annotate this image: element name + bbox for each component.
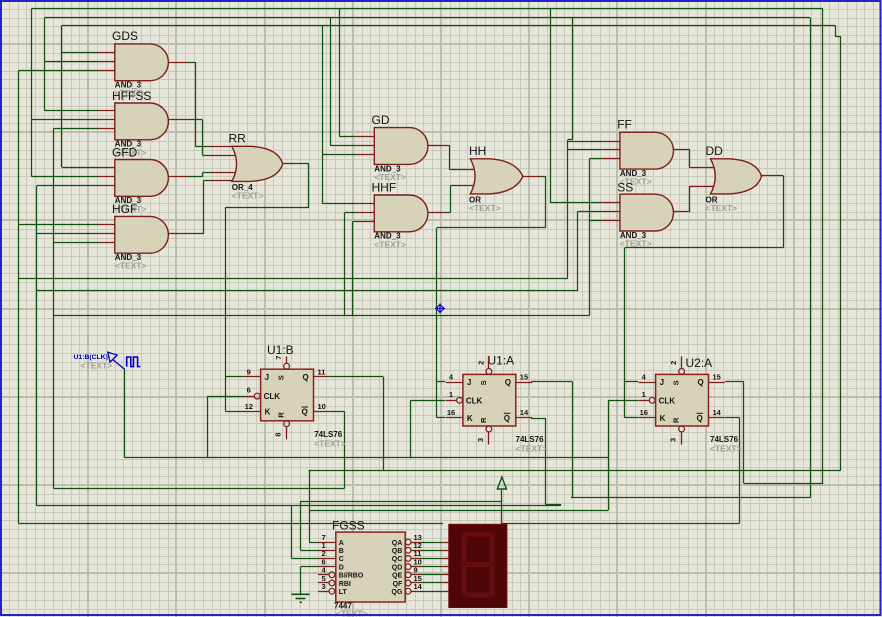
pin bubble U1:A CLK xyxy=(457,397,463,403)
pin stub display segment a xyxy=(443,542,449,544)
svg-text:QG: QG xyxy=(391,589,402,596)
wire 7447 QD wire xyxy=(422,566,443,568)
wire U1:A Qbar jog v xyxy=(560,504,562,506)
pin stub SS input 3 xyxy=(602,220,620,222)
pin stub U1:A Q xyxy=(516,382,532,384)
wire U2:A Qbar cross horizontal xyxy=(18,278,568,280)
pin stub U1:A J xyxy=(446,382,463,384)
wire U1:A J wire xyxy=(437,381,445,383)
pin stub HHF output xyxy=(427,212,443,214)
pin stub U1:A R (bottom) xyxy=(488,432,490,445)
pin stub U2:A Q-bar xyxy=(709,417,725,419)
pin stub HGF output xyxy=(168,233,187,235)
pin stub FGSS QG xyxy=(411,591,422,593)
svg-text:S: S xyxy=(277,375,286,380)
wire GD input 3 wire xyxy=(322,154,356,156)
wire net2-FF jog xyxy=(568,139,573,141)
wire U1:B Qbar wire xyxy=(330,411,345,413)
wire FF output wire xyxy=(683,149,690,151)
wire HFFSS-RR vertical xyxy=(202,120,204,155)
pin stub GDS input 3 xyxy=(97,70,115,72)
wire U1:A K wire xyxy=(437,417,445,419)
wire U1:B Q drop xyxy=(383,377,385,471)
wire net2-GD drop xyxy=(330,18,332,145)
svg-text:DD: DD xyxy=(706,144,724,158)
svg-text:Q: Q xyxy=(505,378,511,387)
pin stub U1:A K xyxy=(446,417,463,419)
pin bubble U2:A R xyxy=(679,426,685,432)
wire RR input 4 wire xyxy=(203,180,211,182)
wire GFD input 1 xyxy=(62,167,98,169)
wire U1:A JK vertical xyxy=(436,228,438,418)
wire net1-SS drop xyxy=(550,8,552,202)
wire U1:A Qbar wire xyxy=(531,418,545,420)
wire GD-HH vertical xyxy=(449,145,451,170)
svg-text:<TEXT>: <TEXT> xyxy=(710,444,742,454)
pin stub FGSS D xyxy=(318,566,336,568)
svg-text:7: 7 xyxy=(274,356,283,360)
pin bubble U2:A CLK xyxy=(649,397,655,403)
wire HGF input 1 xyxy=(18,224,97,226)
wire HHF input 3 riser xyxy=(352,221,354,315)
pin stub GFD input 1 xyxy=(97,167,115,169)
pin stub SS output xyxy=(673,211,690,213)
wire FF input 1 wire xyxy=(568,141,602,143)
wire net3 right riser xyxy=(840,36,842,470)
pin stub U2:A Q xyxy=(709,382,725,384)
wire net1-GD drop xyxy=(339,8,341,136)
pin stub display segment c xyxy=(443,558,449,560)
wire U2:A K wire xyxy=(625,417,639,419)
svg-text:3: 3 xyxy=(669,438,678,442)
wire U1:A Qbar cross horizontal xyxy=(37,290,578,292)
pin bubble FGSS QA xyxy=(405,539,411,545)
pin stub HH input 1 xyxy=(465,169,483,171)
wire HFFSS input 2 xyxy=(32,119,98,121)
svg-text:16: 16 xyxy=(447,408,455,417)
pin stub FGSS QD xyxy=(411,566,422,568)
svg-text:14: 14 xyxy=(520,408,529,417)
pin stub HFFSS input 2 xyxy=(97,119,115,121)
wire net1 left drop xyxy=(31,8,33,176)
wire HGF-RR vertical xyxy=(203,181,205,234)
AND gate GD xyxy=(374,128,428,165)
pin bubble FGSS BI/RBO xyxy=(329,572,335,578)
wire mid bus horizontal xyxy=(309,510,608,512)
svg-text:2: 2 xyxy=(669,361,678,365)
wire U1:A Qbar jog xyxy=(545,504,560,506)
wire FF input 2 wire xyxy=(568,149,602,151)
svg-text:<TEXT>: <TEXT> xyxy=(115,261,147,271)
wire 7447 QE wire xyxy=(422,574,443,576)
svg-text:C: C xyxy=(339,556,344,563)
svg-text:11: 11 xyxy=(318,367,326,376)
pin stub display top pin xyxy=(501,515,503,524)
AND gate GDS xyxy=(115,44,169,81)
wire 7447 QC wire xyxy=(422,558,443,560)
pin stub GFD output xyxy=(168,176,187,178)
pin stub RR output xyxy=(282,163,294,165)
svg-text:14: 14 xyxy=(713,408,722,417)
svg-text:16: 16 xyxy=(640,408,648,417)
pin stub HHF input 3 xyxy=(357,221,375,223)
pin stub RR input 3 xyxy=(211,172,239,174)
wire GFD output wire xyxy=(186,176,202,178)
wire clock source drop xyxy=(124,370,126,458)
svg-text:QD: QD xyxy=(392,564,403,571)
wire U2:A Q drop xyxy=(743,382,745,484)
svg-text:BI/RBO: BI/RBO xyxy=(339,573,364,580)
svg-text:14: 14 xyxy=(414,582,423,591)
pin stub display segment d xyxy=(443,566,449,568)
svg-text:15: 15 xyxy=(520,372,528,381)
wire GDS-RR vertical xyxy=(195,62,197,147)
pin stub FF input 2 xyxy=(602,149,620,151)
pin stub DD input 2 xyxy=(690,186,722,188)
pin stub HFFSS input 3 xyxy=(97,128,115,130)
wire net1 bottom horizontal xyxy=(744,483,823,485)
wire net3 left drop xyxy=(61,25,63,167)
svg-text:J: J xyxy=(660,378,664,387)
wire SS input 1 wire xyxy=(550,202,602,204)
wire HFFSS input 1 xyxy=(45,110,98,112)
svg-text:Q: Q xyxy=(698,378,704,387)
7-segment display ghost digit xyxy=(462,532,495,598)
AND gate HFFSS xyxy=(115,103,169,140)
pin stub HFFSS input 1 xyxy=(97,110,115,112)
wire U1:B Qbar drop xyxy=(344,412,346,489)
pin bubble U1:A R xyxy=(486,426,492,432)
pin stub U2:A CLK xyxy=(639,400,650,402)
OR gate RR xyxy=(232,146,283,181)
wire U1:B Qbar bottom horizontal xyxy=(53,488,344,490)
wire GDS input 3 xyxy=(18,70,97,72)
svg-text:U1:A: U1:A xyxy=(488,354,515,368)
pin bubble U1:B S xyxy=(284,363,290,369)
pin stub FF input 1 xyxy=(602,141,620,143)
wire 7447 D wire xyxy=(301,566,318,568)
svg-text:<TEXT>: <TEXT> xyxy=(706,203,738,213)
pin stub display segment b xyxy=(443,550,449,552)
wire HHF-HH vertical xyxy=(450,186,452,213)
pin stub DD output xyxy=(761,175,770,177)
svg-text:2: 2 xyxy=(476,361,485,365)
svg-text:S: S xyxy=(672,380,681,385)
svg-text:<TEXT>: <TEXT> xyxy=(232,191,264,201)
svg-text:QB: QB xyxy=(392,548,403,555)
wire net3 jog vertical xyxy=(835,25,837,36)
wire 7447 B horizontal xyxy=(300,501,502,503)
wire 7447 B riser xyxy=(300,501,302,550)
wire net3 bottom horizontal xyxy=(309,470,841,472)
svg-text:HH: HH xyxy=(469,144,486,158)
wire U1:B Q wire xyxy=(330,376,384,378)
pin stub FGSS QA xyxy=(411,542,422,544)
wire HFFSS output wire xyxy=(186,119,202,121)
wire 7447 A wire xyxy=(309,542,318,544)
wire 7447 QF wire xyxy=(422,582,443,584)
pin stub HGF input 1 xyxy=(97,224,115,226)
svg-text:6: 6 xyxy=(247,386,251,395)
pin stub RR input 4 xyxy=(211,180,239,182)
wire RR input 1 wire xyxy=(196,146,212,148)
wire HH-U1A horizontal xyxy=(437,227,546,229)
svg-text:D: D xyxy=(339,564,344,571)
wire U2:A Qbar wire xyxy=(725,417,740,419)
pin stub FF output xyxy=(673,149,683,151)
wire GFD input 3 xyxy=(37,185,98,187)
pin stub U2:A K xyxy=(639,417,656,419)
clock source U1:B(CLK) xyxy=(108,352,141,369)
svg-text:Q: Q xyxy=(302,408,308,417)
wire RR input 3 wire xyxy=(203,172,211,174)
wire U2:A J wire xyxy=(625,381,639,383)
pin bubble U1:B CLK xyxy=(254,393,260,399)
pin stub HHF input 1 xyxy=(357,203,375,205)
ground symbol xyxy=(291,594,309,602)
pin stub FGSS A xyxy=(318,542,336,544)
wire RR-U1B horizontal xyxy=(226,207,309,209)
pin stub HFFSS output xyxy=(168,119,187,121)
svg-text:<TEXT>: <TEXT> xyxy=(314,439,346,449)
svg-text:CLK: CLK xyxy=(659,396,676,405)
7-segment display xyxy=(449,524,507,607)
wire SS input 2 riser xyxy=(577,212,579,291)
pin stub display segment f xyxy=(443,582,449,584)
wire FF input 3 wire xyxy=(589,158,602,160)
pin stub FGSS QB xyxy=(411,550,422,552)
wire net1 right riser xyxy=(822,8,824,483)
svg-text:Q: Q xyxy=(697,414,703,423)
pin bubble U2:A S xyxy=(679,369,685,375)
wire HH output drop xyxy=(545,176,547,227)
wire net2-FF drop xyxy=(572,18,574,140)
pin stub U1:B Q-bar xyxy=(314,411,330,413)
wire GFD-RR jog xyxy=(202,173,204,177)
svg-text:R: R xyxy=(479,417,488,423)
pin stub GD output xyxy=(427,145,443,147)
wire U1:B CLK riser xyxy=(207,396,209,458)
svg-text:1: 1 xyxy=(642,390,646,399)
pin stub DD input 1 xyxy=(690,167,722,169)
wire DD-U2A horizontal xyxy=(625,247,784,249)
wire 7447 D to ground xyxy=(300,567,302,595)
svg-text:J: J xyxy=(265,373,269,382)
svg-text:R: R xyxy=(672,417,681,423)
svg-text:R: R xyxy=(277,412,286,418)
pin bubble FGSS LT xyxy=(329,588,335,594)
pin stub SS input 1 xyxy=(602,202,620,204)
wire U1:B CLK wire xyxy=(208,396,244,398)
wire U1:A Qbar drop xyxy=(545,418,547,504)
svg-text:A: A xyxy=(339,540,344,547)
AND gate GFD xyxy=(115,160,169,197)
svg-text:CLK: CLK xyxy=(466,396,483,405)
svg-text:FGSS: FGSS xyxy=(332,519,365,533)
pin stub GFD input 3 xyxy=(97,185,115,187)
wire net2 left drop xyxy=(44,18,46,111)
flip-flop U1:B 74LS76 xyxy=(261,369,314,421)
svg-text:9: 9 xyxy=(247,367,251,376)
wire U1:A Q drop xyxy=(572,382,574,498)
wire GFD input 2 xyxy=(32,176,98,178)
pin stub HHF input 2 xyxy=(357,212,375,214)
pin stub GD input 2 xyxy=(357,145,375,147)
pin stub U1:A CLK xyxy=(446,400,457,402)
pin bubble FGSS QE xyxy=(405,572,411,578)
wire 7447 C riser xyxy=(291,506,293,559)
pin stub GFD input 2 xyxy=(97,176,115,178)
wire U1:B JK vertical xyxy=(225,207,227,411)
svg-text:1: 1 xyxy=(449,390,453,399)
wire RR output drop xyxy=(308,164,310,207)
svg-text:Q: Q xyxy=(504,414,510,423)
wire net3-GD/HHF drop xyxy=(322,25,324,203)
svg-text:SS: SS xyxy=(617,181,633,195)
svg-text:QC: QC xyxy=(392,556,403,563)
wire 7447 QG wire xyxy=(422,591,443,593)
svg-text:FF: FF xyxy=(617,118,632,132)
svg-text:GFD: GFD xyxy=(112,145,138,159)
wire HHF input 1 wire xyxy=(322,203,356,205)
pin stub HH output xyxy=(522,176,540,178)
wire terminal-U2AQbar horizontal xyxy=(502,523,740,525)
svg-text:QA: QA xyxy=(392,540,403,547)
pin stub U1:B Q xyxy=(314,376,330,378)
wire U1:A CLK wire xyxy=(411,400,446,402)
pin stub U1:B S (top) xyxy=(286,356,288,363)
wire U1:B J wire xyxy=(226,376,244,378)
flip-flop U1:A 74LS76 xyxy=(463,374,516,426)
wire net2-FF drop 2 xyxy=(567,140,569,278)
wire U1:B Q-bar left riser xyxy=(53,129,55,489)
pin stub FGSS B xyxy=(318,550,336,552)
wire U1:A Qbar bottom horizontal xyxy=(37,505,561,507)
pin bubble U1:A S xyxy=(486,369,492,375)
pin stub HGF input 2 xyxy=(97,233,115,235)
IC FGSS 7447 BCD to 7-segment decoder xyxy=(336,532,405,602)
wire U2:A Q-bar left riser xyxy=(18,71,20,523)
flip-flop U2:A 74LS76 xyxy=(656,374,709,426)
origin marker (blue diamond) xyxy=(435,303,445,313)
svg-text:8: 8 xyxy=(274,433,283,437)
wire U2:A Q wire xyxy=(725,381,744,383)
pin bubble FGSS QC xyxy=(405,556,411,562)
pin stub U2:A R (bottom) xyxy=(681,432,683,445)
wire net3 jog horizontal xyxy=(835,36,840,38)
svg-text:<TEXT>: <TEXT> xyxy=(81,360,113,370)
pin bubble FGSS RBI xyxy=(329,580,335,586)
pin bubble U1:B R xyxy=(284,421,290,427)
wire U2:A Qbar bottom horizontal xyxy=(18,523,443,525)
pin stub FGSS RBI xyxy=(318,582,329,584)
pin stub U1:B K xyxy=(244,411,261,413)
wire DD output wire xyxy=(769,175,784,177)
svg-text:HHF: HHF xyxy=(372,180,397,194)
pin stub display segment g xyxy=(443,591,449,593)
svg-text:<TEXT>: <TEXT> xyxy=(516,444,548,454)
AND gate SS xyxy=(620,194,674,231)
svg-text:HFFSS: HFFSS xyxy=(112,89,151,103)
wire SS-DD vertical xyxy=(689,186,691,212)
wire GDS input 1 xyxy=(62,52,98,54)
wire 7447 B wire xyxy=(300,550,318,552)
svg-text:12: 12 xyxy=(245,402,253,411)
wire net3 top horizontal xyxy=(62,25,835,27)
wire HHF output wire xyxy=(443,212,451,214)
wire 7447 QA wire xyxy=(422,542,443,544)
wire U2:A Qbar drop xyxy=(739,418,741,523)
pin stub U2:A J xyxy=(639,382,656,384)
wire FF/SS input 3 riser xyxy=(589,159,591,316)
pin stub GDS output xyxy=(168,62,187,64)
svg-text:J: J xyxy=(467,378,471,387)
pin stub SS input 2 xyxy=(602,211,620,213)
pin stub GDS input 2 xyxy=(97,61,115,63)
pin stub HH input 2 xyxy=(465,185,483,187)
wire GDS input 2 xyxy=(45,61,98,63)
pin stub FGSS LT xyxy=(318,591,329,593)
wire net2 right riser xyxy=(810,18,812,498)
pin bubble FGSS QD xyxy=(405,564,411,570)
svg-text:GDS: GDS xyxy=(112,29,138,43)
pin stub RR input 1 xyxy=(211,146,239,148)
pin stub U1:B J xyxy=(244,376,261,378)
wire U1:B K wire xyxy=(226,411,244,413)
terminal arrow xyxy=(497,477,506,489)
pin stub FGSS C xyxy=(318,558,336,560)
svg-text:K: K xyxy=(660,414,666,423)
svg-text:GD: GD xyxy=(372,113,390,127)
pin stub FGSS QE xyxy=(411,574,422,576)
pin stub display segment e xyxy=(443,574,449,576)
svg-text:3: 3 xyxy=(476,438,485,442)
svg-text:<TEXT>: <TEXT> xyxy=(620,239,652,249)
svg-text:QF: QF xyxy=(393,581,403,588)
pin stub FGSS QF xyxy=(411,582,422,584)
pin stub FF input 3 xyxy=(602,158,620,160)
pin bubble FGSS QB xyxy=(405,547,411,553)
wire SS input 3 wire xyxy=(589,220,602,222)
svg-text:<TEXT>: <TEXT> xyxy=(374,239,406,249)
wire HFFSS input 3 xyxy=(53,128,97,130)
wire 7447 A riser xyxy=(309,470,311,542)
wire 7447 C wire xyxy=(292,558,319,560)
pin stub GD input 3 xyxy=(357,154,375,156)
wire HH output wire xyxy=(540,176,546,178)
wire net2 bottom horizontal xyxy=(571,497,811,499)
pin stub HGF input 3 xyxy=(97,242,115,244)
wire net1 top horizontal xyxy=(32,8,823,10)
AND gate HHF xyxy=(374,195,428,232)
pin stub FGSS QC xyxy=(411,558,422,560)
wire net2 top horizontal xyxy=(45,17,811,19)
pin stub GDS input 1 xyxy=(97,52,115,54)
wire HHF input 2 wire xyxy=(345,212,357,214)
wire HHF input 3 wire xyxy=(353,221,357,223)
pin bubble FGSS QF xyxy=(405,580,411,586)
svg-text:CLK: CLK xyxy=(264,392,281,401)
pin stub U1:A Q-bar xyxy=(516,417,532,419)
pin stub U1:B R (bottom) xyxy=(286,427,288,440)
wire GD output wire xyxy=(443,145,450,147)
wire SS input 2 wire xyxy=(578,211,603,213)
wire HH input 1 wire xyxy=(450,169,465,171)
svg-text:K: K xyxy=(467,414,473,423)
wire HGF input 2 xyxy=(37,233,98,235)
svg-text:LT: LT xyxy=(339,589,348,596)
wire DD output drop xyxy=(783,176,785,248)
